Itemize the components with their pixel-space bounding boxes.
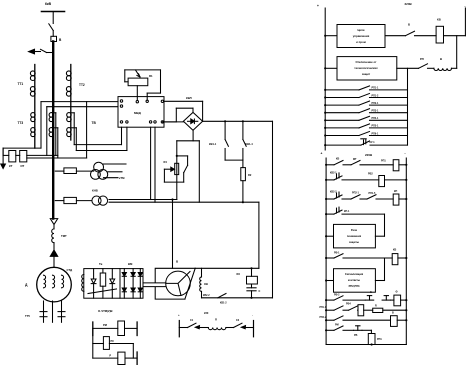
svg-text:Сигнализация: Сигнализация [345,272,364,276]
svg-text:РП6-1: РП6-1 [372,132,379,135]
svg-text:R: R [375,305,377,308]
svg-text:МВД: МВД [134,111,142,115]
svg-text:РП1-5: РП1-5 [369,192,376,195]
svg-text:В: В [392,312,394,315]
svg-text:кТМ: кТМ [119,176,125,180]
svg-text:ТВ: ТВ [92,121,97,125]
svg-text:ИТ: ИТ [21,164,25,168]
svg-text:В: В [408,23,410,27]
svg-text:ТТ3: ТТ3 [18,121,24,125]
svg-text:и пром: и пром [356,40,366,44]
svg-text:О-ЧТМ(2)В: О-ЧТМ(2)В [98,309,113,313]
svg-text:РП2-1: РП2-1 [372,102,379,105]
svg-text:РП2,РП3: РП2,РП3 [349,284,360,288]
svg-text:Тв: Тв [99,262,103,266]
svg-text:-: - [465,4,466,8]
svg-text:РП1-1: РП1-1 [320,307,327,309]
svg-text:ОВ: ОВ [204,282,208,286]
svg-text:МТ: МТ [353,158,357,161]
svg-text:технологических: технологических [354,66,378,70]
svg-text:РП5-1: РП5-1 [372,125,379,128]
svg-text:Р: Р [109,354,111,358]
svg-text:РВ-1: РВ-1 [334,252,340,255]
svg-text:КП: КП [394,190,397,193]
svg-text:КП-1: КП-1 [344,210,350,213]
svg-text:ТТ2: ТТ2 [79,83,85,87]
svg-text:220: 220 [204,311,209,315]
svg-text:Реле: Реле [351,228,358,232]
svg-text:220В: 220В [405,2,413,6]
svg-text:-: - [252,313,253,317]
svg-text:ТМТ: ТМТ [61,234,67,238]
svg-text:РП1: РП1 [377,338,382,341]
svg-text:В: В [440,57,442,61]
svg-text:R4: R4 [164,160,168,164]
svg-text:КВ: КВ [393,249,396,252]
svg-text:КВ1-2: КВ1-2 [220,302,227,305]
svg-text:Я: Я [215,319,217,322]
svg-text:РП1-1: РП1-1 [372,87,379,90]
svg-text:+: + [321,152,323,156]
svg-text:контакты: контакты [348,279,361,282]
svg-text:ТТ1: ТТ1 [18,82,24,86]
svg-text:РП4-2: РП4-2 [320,316,327,319]
svg-text:КВ1-4: КВ1-4 [246,142,254,146]
svg-text:РВ: РВ [354,334,358,337]
svg-text:управления: управления [353,34,370,38]
svg-text:КВ2-1: КВ2-1 [330,172,337,175]
svg-text:Ф: Ф [396,291,398,294]
svg-text:КВ: КВ [336,158,339,161]
svg-text:РП2-1: РП2-1 [352,192,359,195]
svg-text:РМ: РМ [335,324,339,327]
svg-text:РП4-1: РП4-1 [372,117,379,120]
svg-text:РС: РС [111,339,115,343]
svg-text:РП1: РП1 [381,160,386,163]
svg-text:КУ-1: КУ-1 [370,141,376,144]
svg-text:В: В [59,38,62,42]
svg-text:+: + [317,4,319,8]
svg-text:РВ4: РВ4 [346,303,351,306]
svg-text:-: - [405,152,406,156]
svg-text:КНВ: КНВ [92,189,98,193]
svg-text:КВ: КВ [437,18,441,22]
svg-text:+: + [178,313,180,317]
svg-text:Rб: Rб [237,272,241,276]
svg-text:защиты: защиты [349,241,360,244]
svg-text:Цепи: Цепи [357,28,364,32]
svg-text:ТТ5: ТТ5 [25,314,30,318]
svg-text:С: С [370,291,372,294]
svg-text:РВ2: РВ2 [368,173,373,176]
svg-text:КВЛ: КВЛ [186,96,192,100]
svg-text:СТД: СТД [67,268,73,272]
svg-text:РВ-2: РВ-2 [334,294,340,297]
svg-text:КТ: КТ [9,164,13,168]
svg-text:Д: Д [25,283,28,287]
svg-text:КВ1-1: КВ1-1 [209,142,217,146]
svg-text:С: С [259,290,261,293]
svg-text:R2: R2 [248,173,252,177]
svg-text:В: В [176,260,179,264]
svg-text:РП1-2: РП1-2 [372,94,379,97]
svg-text:R1: R1 [149,74,153,78]
svg-text:КВ2-2: КВ2-2 [330,191,337,194]
svg-text:220В: 220В [365,153,373,157]
svg-text:РП3-1: РП3-1 [372,110,379,113]
svg-text:С2: С2 [236,319,240,322]
svg-text:защит: защит [362,72,371,76]
svg-text:КВ2-2: КВ2-2 [203,294,210,297]
svg-text:ВМ: ВМ [128,262,133,266]
svg-text:РЛ: РЛ [420,57,424,61]
svg-text:6кВ: 6кВ [45,2,52,6]
svg-text:С1: С1 [190,319,194,322]
svg-text:понижения: понижения [347,235,362,238]
svg-text:Отключение от: Отключение от [356,60,378,64]
svg-text:РМ: РМ [103,323,107,327]
